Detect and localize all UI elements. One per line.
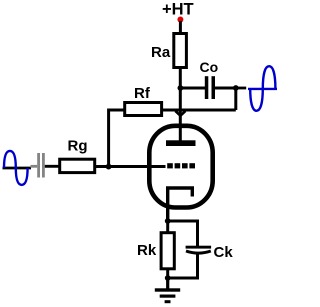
wire output node down xyxy=(234,88,237,110)
triode anode plate xyxy=(166,140,196,146)
wire +HT to Ra top xyxy=(179,21,182,34)
resistor Rf xyxy=(125,85,162,116)
ground symbol xyxy=(155,288,180,303)
svg-text:Rg: Rg xyxy=(68,137,88,154)
wire grid node to tube grid xyxy=(109,165,166,168)
wire Rg to grid node xyxy=(95,165,109,168)
output sine wave (blue, inverted, amplified) xyxy=(250,66,275,111)
node output xyxy=(233,85,239,91)
input sine wave (blue) xyxy=(4,151,28,185)
resistor Rg xyxy=(60,137,95,172)
triode grid (dashed) xyxy=(167,163,195,168)
svg-text:Ck: Ck xyxy=(214,244,234,261)
wire Rk bottom to ground node xyxy=(166,269,169,278)
output baseline (blue) xyxy=(248,88,277,90)
node cathode junction xyxy=(165,218,171,224)
svg-text:Ra: Ra xyxy=(151,44,171,61)
wire output node to anode rail (horizontal) xyxy=(163,109,236,112)
wire Rf left to grid node xyxy=(109,110,125,167)
wire junction notch at anode line xyxy=(175,111,185,116)
node +HT terminal (red dot) xyxy=(177,17,183,23)
wire Ra bottom to anode of tube xyxy=(179,67,182,141)
wire Ck bottom to ground node xyxy=(168,254,198,278)
wire anode junction to Co left plate xyxy=(180,87,205,90)
wire output stub right of node xyxy=(236,87,246,90)
capacitor Co xyxy=(200,59,219,99)
wire input cap to Rg xyxy=(45,165,59,168)
resistor Ra xyxy=(151,34,186,68)
svg-text:Co: Co xyxy=(200,59,219,75)
wire cathode junction to Rk xyxy=(166,221,169,233)
wire cathode junction to Ck branch xyxy=(168,221,198,246)
svg-text:Rf: Rf xyxy=(134,85,151,102)
triode cathode xyxy=(168,188,193,220)
node grid junction xyxy=(106,164,112,170)
capacitor Ck xyxy=(186,244,234,261)
triode V1 envelope xyxy=(149,126,212,208)
signal source input baseline xyxy=(3,167,32,170)
svg-text:Rk: Rk xyxy=(137,242,157,259)
node A (anode junction) xyxy=(178,85,184,91)
wire to ground xyxy=(166,278,169,289)
svg-text:+HT: +HT xyxy=(162,1,194,19)
resistor Rk xyxy=(137,233,174,269)
node ground junction xyxy=(165,275,171,281)
wire Co right plate to output node xyxy=(214,87,236,90)
input coupling capacitor (gray) xyxy=(31,153,45,178)
